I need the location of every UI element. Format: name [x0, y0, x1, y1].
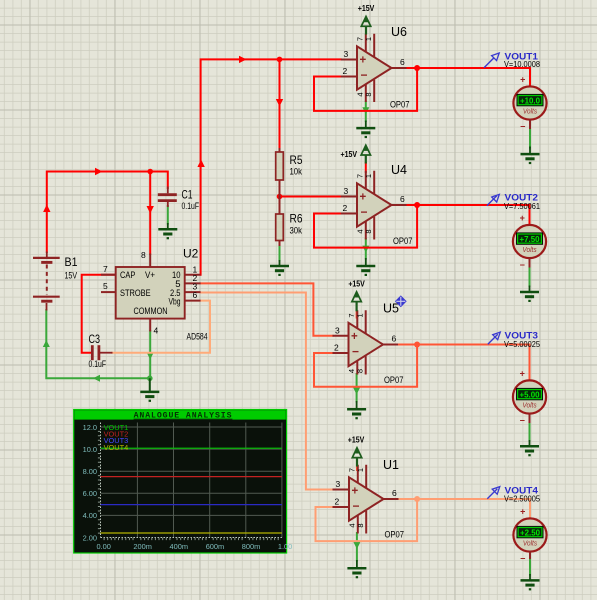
svg-text:−: − — [353, 499, 360, 513]
svg-text:R5: R5 — [290, 153, 303, 167]
svg-text:3: 3 — [335, 325, 340, 335]
svg-text:−: − — [520, 554, 525, 564]
svg-text:V=5.00025: V=5.00025 — [504, 339, 540, 349]
node U4 output junction — [414, 202, 420, 208]
wire U1 feedback — [316, 499, 418, 541]
svg-text:+: + — [520, 75, 525, 85]
svg-text:V+: V+ — [145, 270, 155, 281]
ground under U6 — [356, 121, 375, 138]
svg-text:1: 1 — [364, 174, 373, 178]
selection crosshair — [395, 295, 407, 307]
pin 2 stub — [185, 282, 201, 284]
svg-text:10.0: 10.0 — [83, 445, 97, 454]
plot axes — [101, 423, 282, 538]
svg-text:U4: U4 — [391, 163, 407, 177]
svg-text:C3: C3 — [89, 332, 101, 346]
node 10V junction — [277, 57, 283, 63]
arrow up on B1- green wire — [43, 340, 50, 347]
svg-text:8: 8 — [356, 523, 365, 527]
svg-text:800m: 800m — [242, 542, 260, 551]
power +15V U5 — [348, 279, 365, 312]
pin 3 stub — [185, 291, 201, 293]
ground under C1 — [158, 223, 177, 238]
wire meter M3 to ground — [529, 422, 531, 441]
svg-text:6: 6 — [193, 290, 198, 300]
wire U5 output to meter M3 — [398, 345, 530, 380]
voltmeter M4 — [513, 507, 546, 564]
svg-text:3: 3 — [344, 186, 349, 196]
pin 4 stub — [149, 319, 151, 332]
arrow left on ground return wire — [93, 375, 100, 382]
probe VOUT2 — [487, 194, 500, 205]
svg-text:Volts: Volts — [523, 539, 537, 548]
svg-text:−: − — [361, 68, 368, 82]
ground under M3 — [520, 440, 539, 455]
svg-text:12.0: 12.0 — [83, 423, 97, 432]
svg-text:Volts: Volts — [523, 107, 537, 116]
svg-text:6: 6 — [392, 334, 397, 344]
svg-text:6: 6 — [392, 488, 397, 498]
svg-text:Volts: Volts — [522, 245, 536, 254]
svg-text:1: 1 — [356, 313, 365, 317]
svg-text:AD584: AD584 — [187, 332, 208, 343]
svg-text:0.1uF: 0.1uF — [182, 201, 200, 211]
wire R6 to ground — [279, 244, 281, 261]
svg-text:+15V: +15V — [341, 149, 358, 159]
ground under U1 — [347, 560, 366, 577]
wire U1 output to meter M4 — [398, 499, 530, 517]
node U6 output junction — [414, 65, 420, 71]
svg-text:+15V: +15V — [348, 279, 365, 289]
svg-text:+5.00: +5.00 — [520, 390, 540, 400]
svg-text:−: − — [352, 345, 359, 359]
svg-text:2: 2 — [343, 66, 348, 76]
pin 6 stub — [185, 300, 201, 302]
power +15V U6 — [358, 3, 375, 35]
wire U6 output to meter M1 — [406, 68, 530, 86]
svg-text:2.00: 2.00 — [83, 533, 97, 542]
arrow down on U6 gnd wire — [362, 107, 369, 114]
node V+ junction — [147, 169, 153, 175]
ground under U4 — [356, 258, 375, 275]
ground under M4 — [521, 574, 540, 589]
svg-text:1.00: 1.00 — [278, 542, 292, 551]
wire R5-R6 node to U4 pin3 — [280, 196, 341, 198]
svg-text:5: 5 — [103, 281, 108, 291]
svg-text:OP07: OP07 — [385, 530, 405, 541]
svg-text:6.00: 6.00 — [83, 489, 97, 498]
wire meter M1 to ground — [529, 129, 531, 148]
svg-text:+: + — [360, 192, 367, 204]
svg-text:30k: 30k — [290, 226, 303, 237]
arrow down on U1 gnd wire — [353, 542, 360, 549]
svg-text:0.00: 0.00 — [97, 542, 111, 551]
svg-text:STROBE: STROBE — [120, 288, 151, 299]
y axis labels — [83, 423, 97, 543]
arrow right on 10V rail — [239, 56, 247, 63]
svg-text:R6: R6 — [290, 212, 303, 226]
ground under R6 — [270, 260, 289, 275]
capacitor C3 — [92, 345, 112, 360]
pin 7 stub — [101, 274, 116, 276]
trace VOUT4 2.5V — [101, 532, 282, 534]
trace VOUT3 5V — [101, 504, 282, 506]
arrow up on B1+ wire — [43, 205, 50, 213]
voltmeter M1 — [513, 75, 546, 132]
wire C1 to ground — [167, 206, 169, 224]
svg-text:OP07: OP07 — [393, 236, 413, 247]
svg-text:2: 2 — [334, 343, 339, 353]
svg-text:8.00: 8.00 — [83, 467, 97, 476]
probe VOUT4 — [487, 487, 500, 499]
wire U2 pin7 CAP to C3 — [82, 275, 116, 353]
wire U4 +15V segment — [365, 163, 367, 172]
svg-text:1: 1 — [364, 37, 373, 41]
ground under M1 — [521, 147, 540, 164]
svg-text:+: + — [520, 507, 525, 517]
svg-text:6: 6 — [400, 194, 405, 204]
svg-text:OP07: OP07 — [384, 375, 404, 386]
svg-text:U1: U1 — [383, 458, 399, 472]
svg-text:4: 4 — [154, 326, 159, 336]
arrow up on pin1 riser — [197, 160, 204, 168]
svg-text:V=2.50005: V=2.50005 — [504, 494, 540, 504]
power +15V U1 — [348, 435, 365, 467]
svg-text:U2: U2 — [183, 247, 199, 261]
svg-text:+10.0: +10.0 — [520, 96, 540, 106]
arrow down on pin4 wire — [147, 353, 154, 360]
svg-text:0.1uF: 0.1uF — [89, 359, 107, 369]
wire meter M4 to ground — [529, 558, 531, 575]
ground under U5 — [347, 401, 366, 418]
svg-text:600m: 600m — [206, 542, 225, 551]
svg-text:+7.50: +7.50 — [520, 234, 540, 244]
resistor R6 — [276, 197, 284, 247]
resistor R5 — [276, 148, 284, 197]
wire 10V node down to R5 — [279, 59, 281, 148]
svg-text:+: + — [352, 486, 359, 498]
svg-text:8: 8 — [364, 92, 373, 96]
wire U6 gnd pin — [365, 102, 367, 122]
wire U2 pin3 2.5V net to U1 pin3 — [201, 293, 333, 490]
wire U1 gnd pin — [356, 533, 358, 561]
IC U2 AD584 — [101, 250, 201, 336]
svg-text:4.00: 4.00 — [83, 511, 97, 520]
ground under M2 — [520, 286, 539, 301]
svg-text:U6: U6 — [391, 25, 407, 39]
wire U4 gnd pin — [365, 239, 367, 259]
probe VOUT3 — [488, 332, 501, 344]
wire U4 feedback — [314, 205, 417, 248]
arrow down on U5 gnd wire — [353, 388, 360, 395]
svg-text:−: − — [361, 205, 368, 219]
svg-text:1: 1 — [356, 468, 365, 472]
voltmeter M3 — [513, 369, 546, 426]
pin 5 stub — [101, 291, 116, 293]
svg-text:8: 8 — [356, 369, 365, 373]
wire B1- ground net (green) — [46, 310, 150, 378]
wire U6 feedback — [314, 68, 417, 111]
svg-text:ANALOGUE ANALYSIS: ANALOGUE ANALYSIS — [134, 412, 233, 421]
trace VOUT2 7.5V — [101, 476, 282, 478]
svg-text:−: − — [520, 122, 525, 132]
wire B1+ to V+ rail (15V net) — [47, 172, 150, 253]
wire junction down to U2 pin8 — [149, 172, 151, 255]
svg-text:V=7.50061: V=7.50061 — [504, 201, 540, 211]
svg-text:7: 7 — [103, 264, 108, 274]
x axis labels — [97, 542, 293, 551]
svg-text:B1: B1 — [65, 255, 78, 269]
op-amp U4 — [341, 171, 407, 240]
svg-text:10k: 10k — [290, 167, 303, 178]
svg-text:2: 2 — [343, 203, 348, 213]
svg-text:Volts: Volts — [522, 401, 536, 410]
op-amp U1 — [333, 465, 399, 534]
plot gridlines — [101, 423, 282, 538]
wire U4 output to meter M2 — [406, 205, 530, 224]
node U1 output junction — [414, 496, 420, 502]
svg-text:+15V: +15V — [348, 435, 365, 445]
svg-text:+15V: +15V — [358, 3, 375, 13]
wire U2 pin4 COMMON down to ground junction — [149, 331, 151, 378]
svg-text:+: + — [520, 213, 525, 223]
svg-text:8: 8 — [141, 250, 146, 260]
svg-text:+: + — [351, 331, 358, 343]
trace VOUT1 10V — [101, 447, 282, 449]
svg-text:3: 3 — [344, 49, 349, 59]
wire U5 +15V segment — [356, 311, 358, 318]
svg-text:U5: U5 — [383, 302, 399, 316]
svg-text:2: 2 — [335, 497, 340, 507]
svg-text:Vbg: Vbg — [169, 296, 181, 307]
capacitor C1 — [158, 187, 177, 208]
arrow right on top wire — [95, 168, 103, 175]
wire U5 feedback — [314, 345, 417, 387]
axis ticks — [98, 431, 278, 540]
arrow down on U4 gnd wire — [362, 246, 369, 253]
svg-text:COMMON: COMMON — [133, 306, 167, 317]
svg-text:−: − — [520, 416, 525, 426]
svg-text:+: + — [360, 55, 367, 67]
legend — [104, 423, 129, 452]
wire meter M2 to ground — [529, 267, 531, 286]
pin 1 stub — [185, 274, 201, 276]
svg-text:+2.50: +2.50 — [520, 528, 540, 538]
wire U5 gnd pin — [356, 374, 358, 402]
wire U1 +15V segment — [356, 466, 358, 470]
svg-text:15V: 15V — [65, 271, 78, 282]
wire U2 pin6 Vbg to C3 — [112, 301, 210, 353]
svg-text:8: 8 — [364, 229, 373, 233]
analogue analysis graph — [74, 410, 293, 554]
voltmeter M2 — [513, 213, 546, 270]
svg-text:3: 3 — [336, 479, 341, 489]
svg-text:CAP: CAP — [120, 270, 135, 281]
wire U2 pin2 5V net to U5 pin3 — [201, 283, 333, 335]
svg-text:VOUT4: VOUT4 — [104, 443, 129, 452]
arrow down on R5 wire — [276, 99, 283, 107]
pin 8 stub — [149, 254, 151, 268]
node R5/R6 divider junction — [277, 194, 283, 200]
op-amp U6 — [341, 34, 407, 102]
svg-text:200m: 200m — [133, 542, 152, 551]
node U5 output junction — [414, 342, 420, 348]
arrow down on pin8 wire — [147, 206, 154, 214]
wire junction to C1 — [150, 172, 168, 189]
svg-text:400m: 400m — [170, 542, 189, 551]
svg-text:C1: C1 — [182, 188, 193, 202]
svg-text:V=10.0008: V=10.0008 — [504, 59, 540, 69]
op-amp U5 — [333, 310, 399, 374]
wire U2 pin1 10V net up and right to U6 pin3 — [201, 59, 341, 274]
svg-text:−: − — [520, 260, 525, 270]
ground under B1/U2 common — [140, 378, 159, 401]
battery B1 — [33, 252, 60, 311]
svg-text:OP07: OP07 — [390, 100, 410, 111]
U2 body — [116, 267, 185, 319]
power +15V U4 — [341, 145, 371, 163]
node ground junction — [147, 376, 153, 382]
svg-text:+: + — [520, 369, 525, 379]
svg-text:6: 6 — [400, 57, 405, 67]
probe VOUT1 — [484, 53, 499, 68]
